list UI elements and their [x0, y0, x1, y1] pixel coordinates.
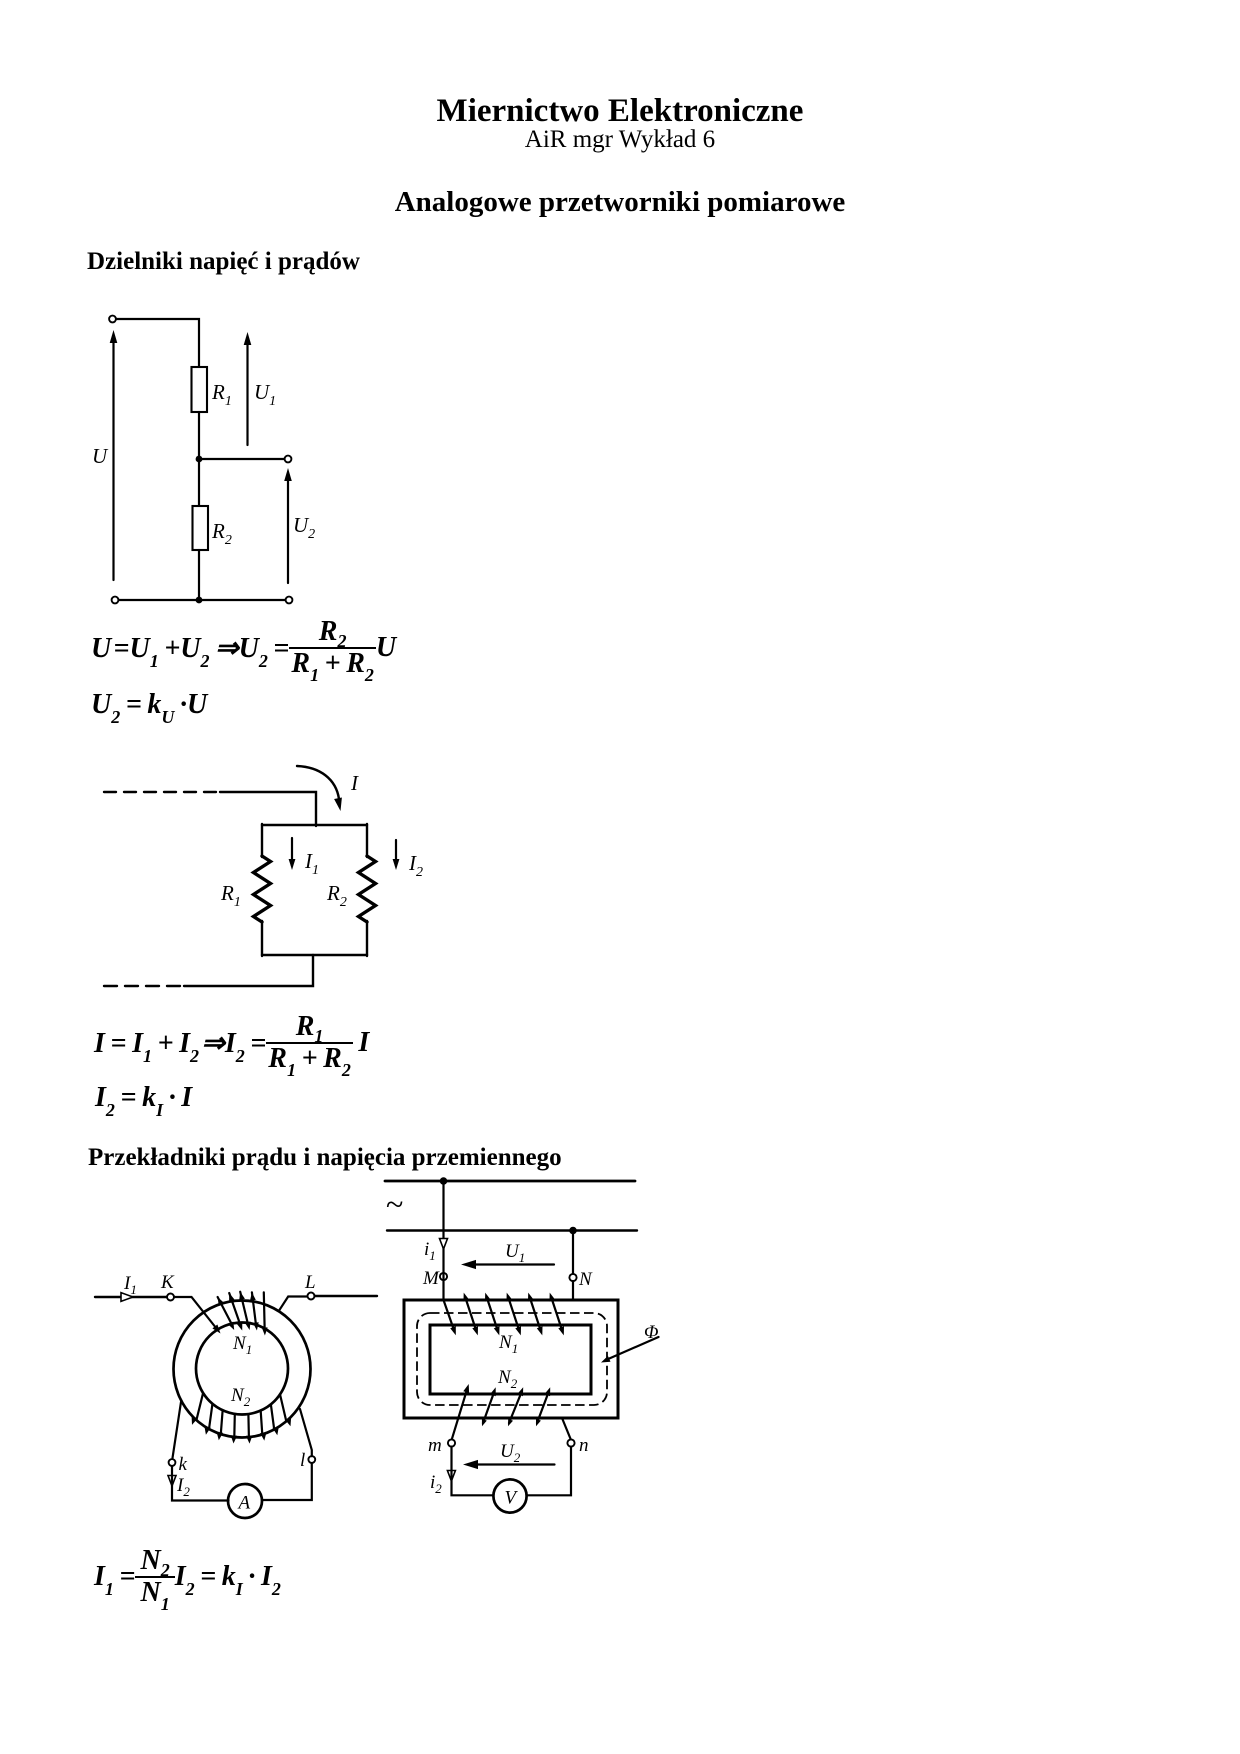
arrow i2 open: [447, 1471, 455, 1482]
meter A: [228, 1484, 262, 1518]
power line bottom: [387, 1229, 637, 1231]
svg-text:U2: U2: [293, 513, 315, 542]
winding N2 strokes: [192, 1393, 292, 1443]
terminal bottom-right: [286, 597, 293, 604]
wire input: [220, 792, 316, 826]
arrow I1 open: [121, 1293, 133, 1302]
svg-text:R2: R2: [211, 519, 232, 548]
svg-text:L: L: [304, 1272, 316, 1293]
wire parallel bottom: [262, 954, 367, 956]
resistor R1: [192, 367, 208, 412]
wire bottom: [119, 599, 286, 601]
wire N to core: [572, 1281, 574, 1299]
core toroid outer: [174, 1301, 311, 1438]
subtitle: [0, 126, 1240, 154]
wire junction to R2: [198, 459, 200, 506]
svg-text:~: ~: [386, 1186, 403, 1222]
svg-text:I2: I2: [176, 1475, 190, 1499]
equation 2: [91, 689, 207, 721]
terminal m: [448, 1439, 455, 1446]
flux path dashed: [417, 1313, 607, 1405]
wire k exit: [173, 1402, 182, 1458]
winding N2 stroke to n: [562, 1418, 571, 1440]
terminal K: [167, 1294, 174, 1301]
arrow I curved: [297, 766, 342, 811]
section title: [0, 186, 1240, 219]
arrow I1: [289, 838, 296, 870]
wire dashed input: [104, 791, 224, 793]
svg-text:N2: N2: [497, 1367, 518, 1391]
svg-text:N1: N1: [498, 1332, 518, 1356]
svg-text:N: N: [578, 1269, 593, 1290]
power line top: [385, 1180, 635, 1183]
wire left branch bottom: [261, 921, 263, 956]
winding N2 stroke to m: [452, 1384, 469, 1439]
meter V: [493, 1479, 526, 1512]
equation 4: [95, 1082, 192, 1114]
svg-text:U2: U2: [500, 1441, 521, 1465]
equation 5: [94, 1551, 281, 1603]
arrow U2: [463, 1460, 555, 1469]
terminal k: [169, 1459, 176, 1466]
wire R2 to bottom: [198, 550, 200, 600]
terminal bottom-left: [112, 597, 119, 604]
svg-text:U: U: [92, 444, 109, 468]
arrow I2: [393, 840, 400, 870]
svg-text:l: l: [300, 1450, 305, 1471]
svg-text:U1: U1: [505, 1241, 525, 1265]
wire lead I1: [95, 1296, 167, 1298]
wire top-left to R1: [116, 319, 199, 368]
wire meter A to l: [262, 1463, 312, 1500]
winding N1 strokes core: [464, 1293, 565, 1336]
core outer: [404, 1300, 618, 1418]
core toroid inner: [196, 1323, 288, 1415]
node junction line1: [440, 1177, 448, 1185]
wire meter V to n: [527, 1447, 571, 1496]
arrow U2: [284, 468, 292, 583]
wire lead L: [315, 1295, 378, 1297]
node junction mid: [196, 456, 203, 463]
svg-text:A: A: [237, 1493, 251, 1514]
arrow U: [110, 330, 118, 580]
terminal M: [440, 1273, 447, 1280]
heading 2: [88, 1144, 562, 1172]
wire R1 to junction: [198, 412, 200, 459]
wire N drop: [572, 1231, 574, 1274]
wire parallel top: [262, 824, 367, 826]
svg-text:k: k: [179, 1454, 188, 1475]
svg-text:R1: R1: [220, 881, 241, 910]
svg-text:I1: I1: [304, 849, 319, 878]
svg-text:I: I: [350, 771, 359, 795]
arrow i1 open: [440, 1239, 448, 1250]
terminal n: [567, 1439, 574, 1446]
svg-text:I1: I1: [123, 1273, 137, 1297]
terminal top-left: [109, 316, 116, 323]
svg-text:n: n: [579, 1435, 589, 1456]
wire k to meter A: [172, 1466, 229, 1501]
title: [0, 93, 1240, 130]
wire right branch bottom: [366, 921, 368, 956]
wire right branch top: [366, 824, 368, 857]
svg-text:M: M: [422, 1268, 440, 1289]
equation 3: [94, 1017, 369, 1069]
wire L exit: [279, 1297, 307, 1311]
arrow U1: [244, 332, 252, 445]
resistor R2 zigzag: [359, 856, 376, 922]
core window: [430, 1325, 591, 1394]
terminal l: [308, 1456, 315, 1463]
resistor R2: [193, 506, 209, 550]
svg-text:U1: U1: [254, 380, 276, 409]
heading 1: [87, 248, 360, 276]
winding N2 strokes core: [482, 1387, 550, 1426]
terminal mid-right: [285, 456, 292, 463]
wire M drop: [442, 1181, 444, 1273]
arrow U1: [461, 1260, 554, 1269]
svg-text:I2: I2: [408, 851, 423, 880]
winding N1 stroke from M: [444, 1272, 456, 1335]
arrow I2 open toroid: [168, 1476, 176, 1487]
terminal L: [308, 1293, 315, 1300]
svg-text:i1: i1: [424, 1239, 436, 1263]
equation 1: [91, 622, 396, 674]
svg-text:N1: N1: [232, 1333, 252, 1357]
arrow flux pointer: [601, 1337, 659, 1363]
svg-text:K: K: [160, 1272, 175, 1293]
node junction bottom: [196, 597, 203, 604]
terminal N: [569, 1274, 576, 1281]
wire output: [184, 955, 313, 986]
svg-text:V: V: [505, 1488, 519, 1509]
svg-text:R1: R1: [211, 380, 232, 409]
resistor R1 zigzag: [254, 856, 271, 922]
svg-text:R2: R2: [326, 881, 347, 910]
wire dashed output: [104, 985, 186, 987]
svg-text:m: m: [428, 1435, 442, 1456]
wire l to ring: [300, 1409, 312, 1456]
svg-text:N2: N2: [230, 1385, 251, 1409]
winding N1 strokes: [218, 1292, 259, 1331]
wire junction to mid terminal: [199, 458, 285, 460]
node junction line2: [569, 1227, 577, 1235]
wire m to meter V: [452, 1447, 494, 1496]
winding N1 last stroke: [262, 1292, 268, 1335]
svg-text:i2: i2: [430, 1472, 442, 1496]
wire left branch top: [261, 824, 263, 857]
winding N1 entry stroke from K: [174, 1297, 221, 1334]
